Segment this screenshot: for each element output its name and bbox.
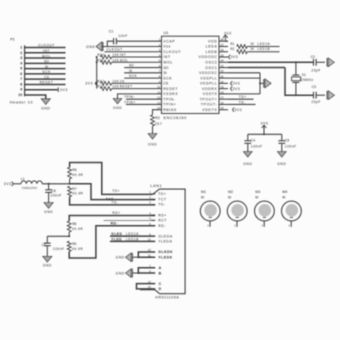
svg-text:RCT: RCT — [158, 219, 167, 223]
svg-text:TPIN-: TPIN- — [163, 97, 175, 101]
svg-text:R7: R7 — [72, 187, 76, 191]
svg-text:LAN1: LAN1 — [150, 184, 162, 188]
wire VSSRX to GND — [118, 94, 162, 99]
svg-text:VDDPLL: VDDPLL — [200, 82, 217, 86]
svg-text:R9: R9 — [72, 242, 76, 246]
svg-text:SCK: SCK — [129, 74, 138, 78]
wire OSC2 — [228, 61, 313, 63]
svg-text:M3: M3 — [255, 190, 260, 194]
ground (shield A/B) — [116, 269, 133, 278]
svg-text:OSC2: OSC2 — [205, 60, 217, 64]
svg-text:CS: CS — [120, 79, 124, 83]
wire net TPIN+ — [124, 100, 162, 104]
power port 3V3 (pull-ups) — [85, 81, 97, 86]
capacitor C6 100nF — [45, 184, 62, 203]
resistor R8 49.9R (RD+) — [67, 221, 83, 232]
svg-text:3V3: 3V3 — [85, 82, 93, 86]
svg-text:SI: SI — [45, 65, 48, 69]
wire net LED1A (GLEDA) — [110, 232, 155, 236]
svg-text:GLEDA: GLEDA — [158, 234, 173, 238]
svg-text:X1: X1 — [302, 73, 306, 77]
svg-text:TD+: TD+ — [112, 189, 120, 193]
wire header pin 6 net SCK — [25, 70, 66, 74]
svg-text:TPIN+: TPIN+ — [124, 100, 136, 104]
svg-text:M: M — [228, 196, 231, 200]
resistor R2 1K (LEDB) — [230, 47, 279, 54]
svg-text:LEDA: LEDA — [206, 45, 218, 49]
svg-text:SCK: SCK — [163, 76, 172, 80]
svg-text:M: M — [201, 196, 204, 200]
svg-text:GND: GND — [44, 210, 53, 214]
svg-text:RD+: RD+ — [158, 213, 167, 217]
svg-text:RESET: RESET — [163, 87, 178, 91]
svg-text:TPIN+: TPIN+ — [163, 103, 176, 107]
svg-text:10K: 10K — [112, 79, 119, 83]
svg-text:TCT: TCT — [106, 198, 114, 202]
svg-text:Vss: Vss — [163, 45, 171, 49]
wire C/D tied — [137, 284, 156, 289]
mounting hole M2 — [227, 190, 247, 227]
svg-text:C3: C3 — [312, 85, 316, 89]
svg-text:TD-: TD- — [158, 203, 166, 207]
svg-text:LEDB: LEDB — [206, 50, 218, 54]
svg-text:8: 8 — [20, 82, 22, 86]
wire net SO — [124, 64, 161, 68]
svg-text:3V3: 3V3 — [235, 108, 243, 112]
power port 3V3 (VDDRX) — [231, 86, 241, 90]
svg-text:M1: M1 — [201, 190, 206, 194]
wire header pin 10 to GND — [25, 95, 46, 99]
svg-text:100nF: 100nF — [50, 194, 62, 198]
ground (header) — [41, 99, 50, 111]
svg-text:CLKOUT: CLKOUT — [38, 44, 55, 48]
svg-text:M4: M4 — [282, 190, 287, 194]
svg-text:VDD: VDD — [208, 39, 217, 43]
svg-text:10K: 10K — [112, 85, 119, 89]
svg-text:VSSTX: VSSTX — [203, 92, 218, 96]
svg-text:10: 10 — [18, 93, 22, 97]
svg-text:GND: GND — [113, 106, 122, 110]
svg-text:ENC28J60: ENC28J60 — [164, 116, 187, 120]
svg-text:9: 9 — [20, 88, 22, 92]
LAN1 left pin names and numbers — [148, 190, 173, 291]
wire net RD- to LAN1 — [69, 221, 155, 258]
svg-text:R2: R2 — [230, 47, 234, 51]
svg-text:INT: INT — [163, 55, 171, 59]
svg-text:VCAP: VCAP — [163, 39, 175, 43]
svg-text:VDDTX: VDDTX — [202, 108, 217, 112]
svg-text:GND: GND — [116, 271, 125, 275]
svg-text:L1: L1 — [21, 177, 25, 181]
svg-text:TPOUT+: TPOUT+ — [200, 97, 218, 101]
svg-text:1: 1 — [20, 46, 22, 50]
svg-text:M: M — [282, 196, 285, 200]
svg-text:RESET: RESET — [40, 81, 54, 85]
wire header pin 4 net SO — [25, 60, 66, 64]
svg-text:C7: C7 — [42, 243, 46, 247]
resistor R3 2K7 (RBIAS) — [151, 110, 163, 134]
svg-text:OSC1: OSC1 — [205, 66, 217, 70]
svg-text:SO: SO — [129, 64, 134, 68]
svg-text:7: 7 — [20, 77, 22, 81]
wire header pin 2 net INT — [25, 49, 66, 53]
wire A/B to GND — [133, 268, 155, 274]
power port 3V3 (VDDOSC) — [229, 55, 239, 59]
svg-text:100nF: 100nF — [251, 145, 263, 149]
ground (C7) — [43, 256, 52, 267]
svg-text:SCK: SCK — [42, 70, 51, 74]
svg-text:10K: 10K — [112, 58, 119, 62]
svg-text:C2: C2 — [311, 55, 315, 59]
mounting hole M3 — [255, 190, 275, 227]
svg-text:R11: R11 — [97, 58, 104, 62]
svg-text:R1: R1 — [230, 42, 234, 46]
wire 3V3 decoupling rail — [248, 133, 282, 135]
svg-text:100nF: 100nF — [53, 247, 65, 251]
svg-text:VDDOSC: VDDOSC — [199, 55, 218, 59]
ground (C1/Vss) — [86, 42, 103, 51]
power port 3V3 (TX bias) — [4, 182, 14, 187]
svg-text:M: M — [255, 196, 258, 200]
svg-text:RESET: RESET — [120, 85, 133, 89]
wire net RD+ to LAN1 — [69, 211, 155, 221]
power port 3V3 (VDDPLL) — [231, 81, 241, 85]
svg-text:10K: 10K — [112, 53, 119, 57]
svg-text:INT: INT — [43, 49, 50, 53]
svg-text:49.9R: 49.9R — [72, 227, 83, 231]
svg-text:GND: GND — [148, 142, 157, 146]
svg-text:20pF: 20pF — [311, 100, 320, 104]
svg-text:LED1B: LED1B — [257, 47, 270, 51]
svg-text:R13: R13 — [97, 85, 104, 89]
wire net TD+ to LAN1 — [70, 163, 153, 195]
svg-text:3V3: 3V3 — [231, 55, 239, 59]
wire VCAP / Vss to GND — [102, 41, 162, 46]
svg-text:SI: SI — [163, 71, 166, 75]
capacitor C5 100nF — [278, 134, 296, 151]
svg-text:LED1A: LED1A — [126, 232, 139, 236]
op-amp U1 ENC28J60 body — [162, 31, 220, 120]
resistor R1 1K (LEDA) — [230, 42, 279, 49]
wire net TCT to LAN1 — [70, 184, 156, 202]
capacitor C3 20pF — [311, 85, 325, 104]
svg-text:RD-: RD- — [111, 221, 118, 225]
wire header pin 9 to 3V3 — [25, 87, 59, 92]
crystal X1 25MHz — [292, 62, 314, 95]
svg-text:3V3: 3V3 — [4, 182, 12, 186]
svg-text:CLKOUT: CLKOUT — [163, 50, 181, 54]
svg-text:WOL: WOL — [163, 60, 173, 64]
mounting hole M1 — [200, 190, 220, 227]
svg-text:GND: GND — [43, 263, 52, 267]
capacitor C1 10nF (VCAP) — [109, 29, 162, 44]
svg-text:GND: GND — [277, 162, 286, 166]
wire net CLKOUT — [105, 48, 162, 52]
svg-text:R10: R10 — [97, 53, 104, 57]
ground (C4) — [243, 152, 252, 167]
ground (C2, right arrow) — [328, 58, 334, 67]
ground (LED cathodes) — [116, 253, 133, 262]
capacitor C4 100nF — [244, 134, 262, 151]
LAN1 pin stubs — [151, 194, 155, 226]
U1 right pin names and numbers — [199, 38, 228, 112]
wire header pin 3 net WOL — [25, 54, 66, 58]
svg-text:C1: C1 — [109, 29, 114, 33]
svg-text:49.9R: 49.9R — [72, 173, 83, 177]
svg-text:C4: C4 — [251, 139, 255, 143]
wire VSSOSC/VSSPLL/VSSTX to GND — [228, 73, 263, 94]
svg-text:INT: INT — [120, 53, 127, 57]
svg-text:C6: C6 — [51, 189, 55, 193]
svg-text:Inductor: Inductor — [22, 186, 38, 190]
svg-text:VSSRX: VSSRX — [163, 92, 178, 96]
svg-text:49.9R: 49.9R — [72, 192, 83, 196]
resistor R12 10K (CS) — [97, 79, 161, 85]
svg-text:VSSOSC: VSSOSC — [199, 71, 217, 75]
svg-text:10nF: 10nF — [118, 34, 127, 38]
svg-text:3: 3 — [20, 56, 22, 60]
wire net SCK — [124, 74, 161, 78]
svg-text:SO: SO — [44, 60, 49, 64]
wire net RCT to LAN1 — [104, 220, 156, 222]
svg-text:3V3: 3V3 — [224, 32, 232, 36]
power port 3V3 (VDD pin 28) — [223, 32, 232, 42]
svg-text:GLEDK: GLEDK — [158, 250, 173, 254]
connector LAN1 HR911105A body — [140, 184, 185, 300]
svg-text:2K7: 2K7 — [155, 122, 163, 126]
svg-text:20pF: 20pF — [311, 68, 320, 72]
resistor R6 49.9R (TD+) — [68, 167, 84, 179]
svg-text:YLEDA: YLEDA — [158, 240, 172, 244]
wire net TPIN- — [124, 95, 162, 99]
wire header pin 1 net CLKOUT — [25, 44, 66, 48]
svg-text:M2: M2 — [228, 190, 233, 194]
svg-text:CS: CS — [44, 75, 49, 79]
wire header pin 7 net CS — [25, 75, 66, 79]
svg-text:3V3: 3V3 — [60, 88, 68, 92]
capacitor C2 20pF — [311, 55, 325, 72]
svg-text:P1: P1 — [10, 37, 15, 41]
wire GLEDK/YLEDK to GND — [133, 252, 155, 258]
svg-text:CLKOUT: CLKOUT — [107, 48, 123, 52]
wire net LED1B (YLEDA) — [110, 237, 155, 241]
svg-text:TD-: TD- — [239, 100, 246, 104]
wire net TD- to LAN1 — [70, 197, 156, 205]
svg-text:3V3: 3V3 — [233, 82, 241, 86]
svg-text:R3: R3 — [155, 116, 159, 120]
svg-text:GND: GND — [243, 162, 252, 166]
svg-text:GLED: GLED — [111, 232, 122, 236]
resistor R10 10K (INT) — [97, 53, 161, 59]
svg-text:C5: C5 — [285, 139, 289, 143]
ground (R3) — [148, 134, 157, 147]
svg-text:U1: U1 — [164, 31, 169, 35]
svg-text:LED1B: LED1B — [126, 237, 139, 241]
svg-text:WOL: WOL — [42, 54, 51, 58]
resistor R13 10K (RESET) — [97, 85, 161, 91]
inductor L1 — [13, 177, 70, 190]
ground (C6) — [44, 203, 53, 215]
ground (C3, right arrow) — [328, 91, 334, 100]
resistor R9 49.9R (RD-) — [67, 232, 83, 251]
svg-text:GND: GND — [41, 106, 50, 110]
mounting hole M4 — [282, 190, 302, 227]
resistor R11 10K (WOL) — [97, 58, 161, 64]
power port 3V3 (VDDTX) — [233, 108, 243, 112]
ground (VSSRX) — [113, 99, 122, 110]
wire header pin 8 net RESET — [25, 81, 66, 85]
ground (VSS group, right arrow) — [265, 79, 271, 88]
resistor R7 49.9R (TD-) — [68, 179, 84, 197]
svg-text:R6: R6 — [72, 168, 76, 172]
wire OSC1 — [228, 68, 313, 97]
connector P1 Header 10 — [10, 37, 33, 104]
svg-text:2: 2 — [20, 51, 22, 55]
svg-text:RBIAS: RBIAS — [163, 108, 177, 112]
svg-text:5: 5 — [20, 67, 22, 71]
wire 3V3 pull-up rail — [95, 56, 98, 89]
svg-text:RD-: RD- — [158, 224, 166, 228]
wire header pin 5 net SI — [25, 65, 66, 69]
svg-text:YLEDK: YLEDK — [158, 255, 173, 259]
svg-text:3V3: 3V3 — [261, 121, 269, 125]
svg-text:HR911105A: HR911105A — [155, 296, 179, 300]
svg-text:WOL: WOL — [120, 58, 129, 62]
svg-text:TCT: TCT — [158, 197, 167, 201]
svg-text:GND: GND — [116, 256, 125, 260]
svg-text:CS: CS — [163, 82, 169, 86]
svg-text:SI: SI — [129, 69, 132, 73]
capacitor C7 100nF (RX bias) — [42, 236, 70, 256]
U1 left pin names and numbers — [157, 38, 181, 112]
ground (C5) — [277, 152, 286, 167]
svg-text:3V3: 3V3 — [233, 87, 241, 91]
svg-text:LED1A: LED1A — [257, 42, 270, 46]
svg-text:VSSPLL: VSSPLL — [200, 76, 217, 80]
wire net TD+ (TPOUT+) — [228, 95, 254, 99]
svg-text:Header 10: Header 10 — [10, 100, 33, 104]
wire net TD- (TPOUT-) — [228, 100, 256, 104]
svg-text:25MHz: 25MHz — [301, 78, 314, 82]
svg-text:TD+: TD+ — [158, 192, 166, 196]
power port 3V3 (decoupling) — [261, 121, 269, 134]
svg-text:VDDRX: VDDRX — [202, 87, 217, 91]
svg-text:SO: SO — [163, 66, 168, 70]
svg-text:6: 6 — [20, 72, 22, 76]
svg-text:TPOUT-: TPOUT- — [201, 103, 218, 107]
svg-text:R12: R12 — [97, 79, 104, 83]
svg-text:100nF: 100nF — [285, 145, 297, 149]
svg-text:4: 4 — [20, 61, 22, 65]
wire net SI — [124, 69, 161, 73]
svg-text:R8: R8 — [72, 222, 76, 226]
svg-text:TD+: TD+ — [239, 95, 247, 99]
svg-text:YLED: YLED — [111, 237, 122, 241]
svg-text:TPIN-: TPIN- — [124, 95, 135, 99]
svg-text:GND: GND — [86, 45, 95, 49]
svg-text:RD+: RD+ — [112, 211, 120, 215]
svg-text:49.9R: 49.9R — [72, 247, 83, 251]
